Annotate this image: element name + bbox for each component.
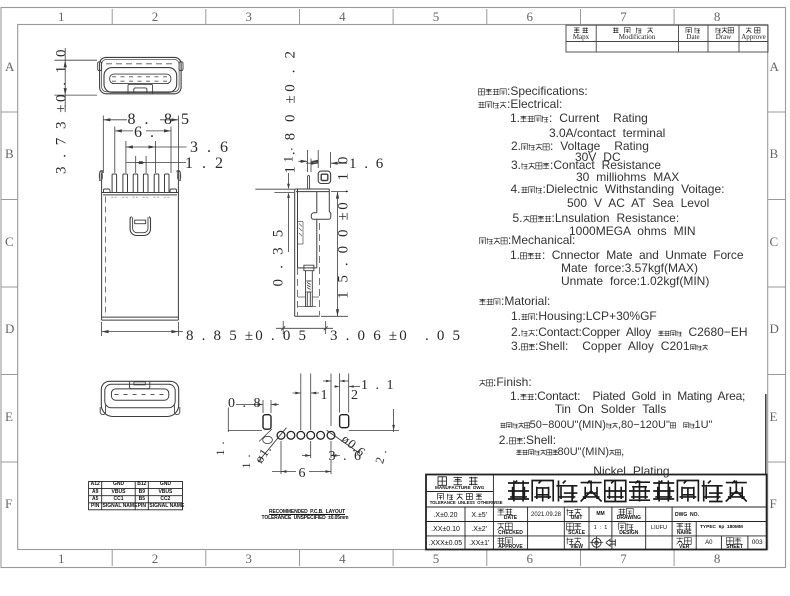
pcb: left pad: [263, 415, 271, 430]
top view: latch: [128, 84, 153, 94]
top view: mouth: [104, 68, 177, 93]
dim text 0.35 (vertical): [272, 156, 287, 356]
pin table text: [79, 482, 111, 487]
side view: top pin: [308, 176, 310, 189]
pcb: dim 6: [272, 441, 331, 474]
dimension 3.73 +-0.10 lines: [54, 48, 97, 107]
spec line: Mate force: [561, 262, 698, 274]
top view: right tab: [179, 62, 183, 71]
dim text 8.85 top: [128, 112, 192, 128]
top view: outer shell: [100, 57, 182, 93]
spec line: 500 V AC AT Sea Level: [567, 197, 709, 209]
spec line: 1 Connector Mate and Unmate Force: [510, 249, 743, 261]
front view: left mount tab: [100, 171, 104, 193]
pcb: leader for dia 0.6: [327, 430, 360, 453]
spec line: 2 Shell: [499, 434, 556, 446]
dimension 8.85+-0.05 under front view: [102, 322, 183, 336]
bottom view: tongue slot: [111, 389, 168, 400]
dimension 1 (side top): [299, 150, 319, 172]
pcb: dim 1: [293, 374, 320, 431]
spec finish box right edge: [765, 394, 767, 475]
front view: pins: [112, 174, 169, 193]
spec line: 2 Contact Copper Alloy: [511, 326, 748, 338]
spec line: 1 Contact plated gold: [510, 390, 745, 402]
spec line: 3.0A/contact terminal: [549, 127, 665, 139]
row letters left: [5, 60, 14, 73]
column numbers top: [58, 10, 65, 23]
spec line: Nickel Plating: [593, 465, 669, 477]
spec line: 30V DC: [575, 151, 621, 163]
revision table english labels: [521, 34, 641, 41]
dim text 8.85 +-0.05: [186, 329, 308, 344]
top view: inner shell line: [102, 59, 180, 91]
dimension 3.06+-0.05: [276, 321, 333, 334]
dimension 3.6: [126, 141, 187, 173]
dim text 1.2: [185, 156, 226, 172]
front view: seam ticks: [111, 196, 170, 198]
spec line: 2 Voltage Rating: [511, 140, 649, 152]
pcb: dim 2 and 1.1: [323, 374, 360, 427]
spec line: 3 Contact Resistance: [511, 159, 661, 171]
top view: tongue: [110, 74, 171, 84]
side view: body: [295, 189, 330, 316]
dim text 15.00 +-0.10 (vertical): [337, 126, 352, 326]
pcb: right pad: [340, 415, 349, 428]
side view: phantom dashed outline: [298, 223, 320, 316]
spec line: 30 milliohms MAX: [576, 171, 679, 183]
spec line: 5 Insulation Resistance: [513, 212, 680, 224]
side view: inner step details: [298, 222, 304, 245]
spec line: 1 Current Rating: [510, 112, 648, 124]
dim text 3.73: [54, 11, 69, 211]
title block: [426, 475, 767, 550]
dimension 6: [115, 127, 171, 174]
revision table: [566, 25, 768, 52]
title block labels hanzi: [438, 477, 447, 486]
view symbols: [590, 536, 616, 549]
bottom view: left foot: [100, 405, 105, 415]
spec line: Unmate force: [561, 275, 709, 287]
bottom view: right foot: [174, 405, 179, 415]
side view: bottom line: [295, 315, 320, 317]
side view: smt foot: [311, 212, 330, 220]
top view: tongue contact dashes: [112, 77, 168, 81]
dim text 3.06 +-0.05: [330, 329, 409, 344]
spec line: 1 Housing LCP: [511, 310, 657, 322]
spec line: terminal plating note: [500, 420, 713, 431]
dim text 1 side: [281, 54, 294, 254]
pcb: left refs: [228, 408, 272, 444]
dimension 1.2: [126, 156, 186, 173]
spec line: 4 Dielectric Withstanding Voltage: [511, 183, 725, 195]
dim text 3.6: [190, 140, 231, 156]
dim text 1.80 +-0.2 (vertical): [284, 10, 299, 210]
spec line: Electrical header: [478, 98, 562, 110]
top view: left tab: [98, 62, 102, 71]
spec line: Specifications header: [478, 85, 588, 97]
pcb: dim 3.6: [302, 441, 340, 458]
pcb: right refs: [349, 409, 399, 432]
dimension 8.85 (top): [103, 116, 178, 174]
dimension 15.00+-0.10: [321, 192, 348, 317]
spec line: 3 Shell Copper Alloy: [511, 340, 708, 352]
spec line: shell plating note: [516, 447, 625, 458]
title block english labels: [430, 486, 490, 491]
column numbers bottom: [58, 552, 65, 565]
spec line: Mechanical header: [479, 234, 575, 246]
dim text 1.6: [349, 157, 385, 172]
side view: top hook: [318, 171, 330, 183]
top view: hidden dashes: [106, 63, 175, 65]
front view: body: [102, 193, 179, 321]
pcb: dim 0.8: [236, 400, 279, 413]
row letters right: [770, 60, 779, 73]
bottom view: top tab: [130, 382, 150, 389]
pin assignment table: [89, 482, 183, 510]
revision header hanzi: [574, 28, 580, 34]
company name hanzi: [508, 481, 529, 502]
recommended pcb layout note: [247, 510, 367, 515]
front view: hidden line: [104, 197, 106, 317]
dimension 1.6 (side): [306, 150, 347, 168]
pcb: leader for dia 1.0: [258, 428, 286, 462]
spec line: Tin On Solder Tails: [555, 403, 667, 415]
dim text 6: [134, 125, 156, 141]
pcb dim texts: [228, 397, 263, 411]
side view: contact stack: [304, 265, 314, 306]
spec line: 1000MEGA ohms MIN: [569, 225, 696, 237]
front view: right mount tab: [176, 171, 180, 193]
spec line: Finish header: [479, 376, 532, 388]
bottom view: outer shell: [101, 381, 178, 416]
front view: side ledges: [104, 189, 177, 193]
pcb: through holes: [277, 431, 285, 439]
front view: latch detail: [130, 217, 150, 236]
spec line: Material header: [479, 295, 550, 307]
dimension 0.35: [255, 173, 294, 252]
bottom view: inner shell: [105, 384, 175, 408]
